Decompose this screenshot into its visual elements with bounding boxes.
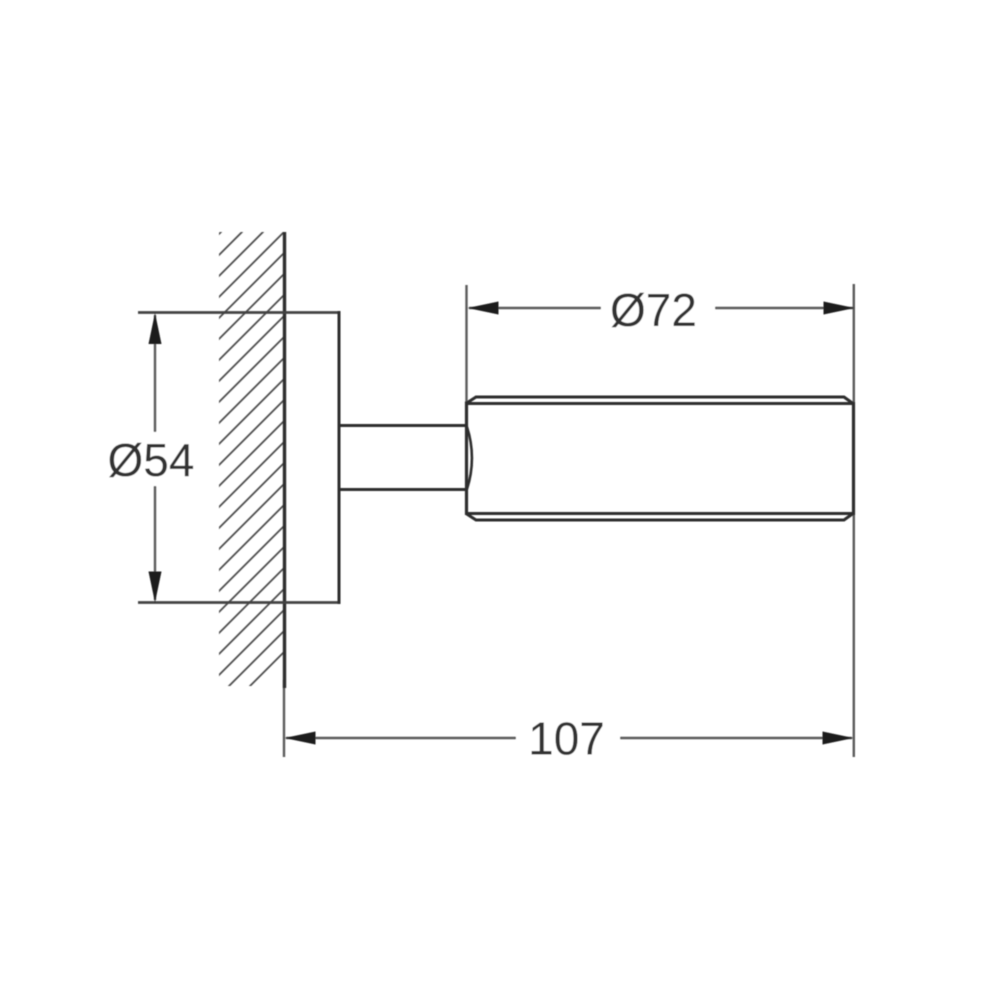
svg-text:107: 107 xyxy=(528,713,605,765)
holder cylinder top edge xyxy=(466,402,853,405)
wall face line xyxy=(283,232,286,688)
Ø54 text mask xyxy=(106,432,198,486)
107 dimension arrow right xyxy=(823,732,854,745)
svg-text:Ø54: Ø54 xyxy=(108,434,195,486)
Ø72 text mask xyxy=(601,287,715,329)
Ø72 dimension line xyxy=(469,307,853,309)
holder cylinder left end face xyxy=(465,402,468,516)
107 dimension arrow left xyxy=(285,732,316,745)
extension line below wall (107 dimension, left) xyxy=(283,680,285,757)
extension line Ø54 top / mounting plate top edge xyxy=(138,311,339,314)
Ø54 dimension line xyxy=(154,315,156,600)
holder cylinder bottom edge xyxy=(466,512,853,515)
extension line Ø54 bottom / mounting plate bottom edge xyxy=(138,601,339,604)
Ø72 dimension arrow right xyxy=(824,302,855,315)
107 text mask xyxy=(516,718,620,760)
holder cylinder top silhouette (barrel) line xyxy=(466,397,853,404)
mounting plate right edge xyxy=(338,311,341,604)
holder cylinder right end face xyxy=(852,402,855,515)
Ø72 left extension line xyxy=(465,285,467,402)
Ø54 dimension arrow up xyxy=(149,313,162,344)
stem bottom edge xyxy=(340,488,466,491)
107 dimension line xyxy=(286,737,852,739)
holder cylinder stem fillet arc xyxy=(467,427,472,489)
Ø54 dimension arrow down xyxy=(149,572,162,603)
stem top edge xyxy=(340,424,466,427)
wall hatching xyxy=(120,0,420,816)
holder cylinder bottom silhouette (barrel) line xyxy=(466,514,853,521)
Ø72 / 107 right extension line xyxy=(853,284,855,757)
Ø72 dimension arrow left xyxy=(468,302,499,315)
svg-text:Ø72: Ø72 xyxy=(610,284,697,336)
